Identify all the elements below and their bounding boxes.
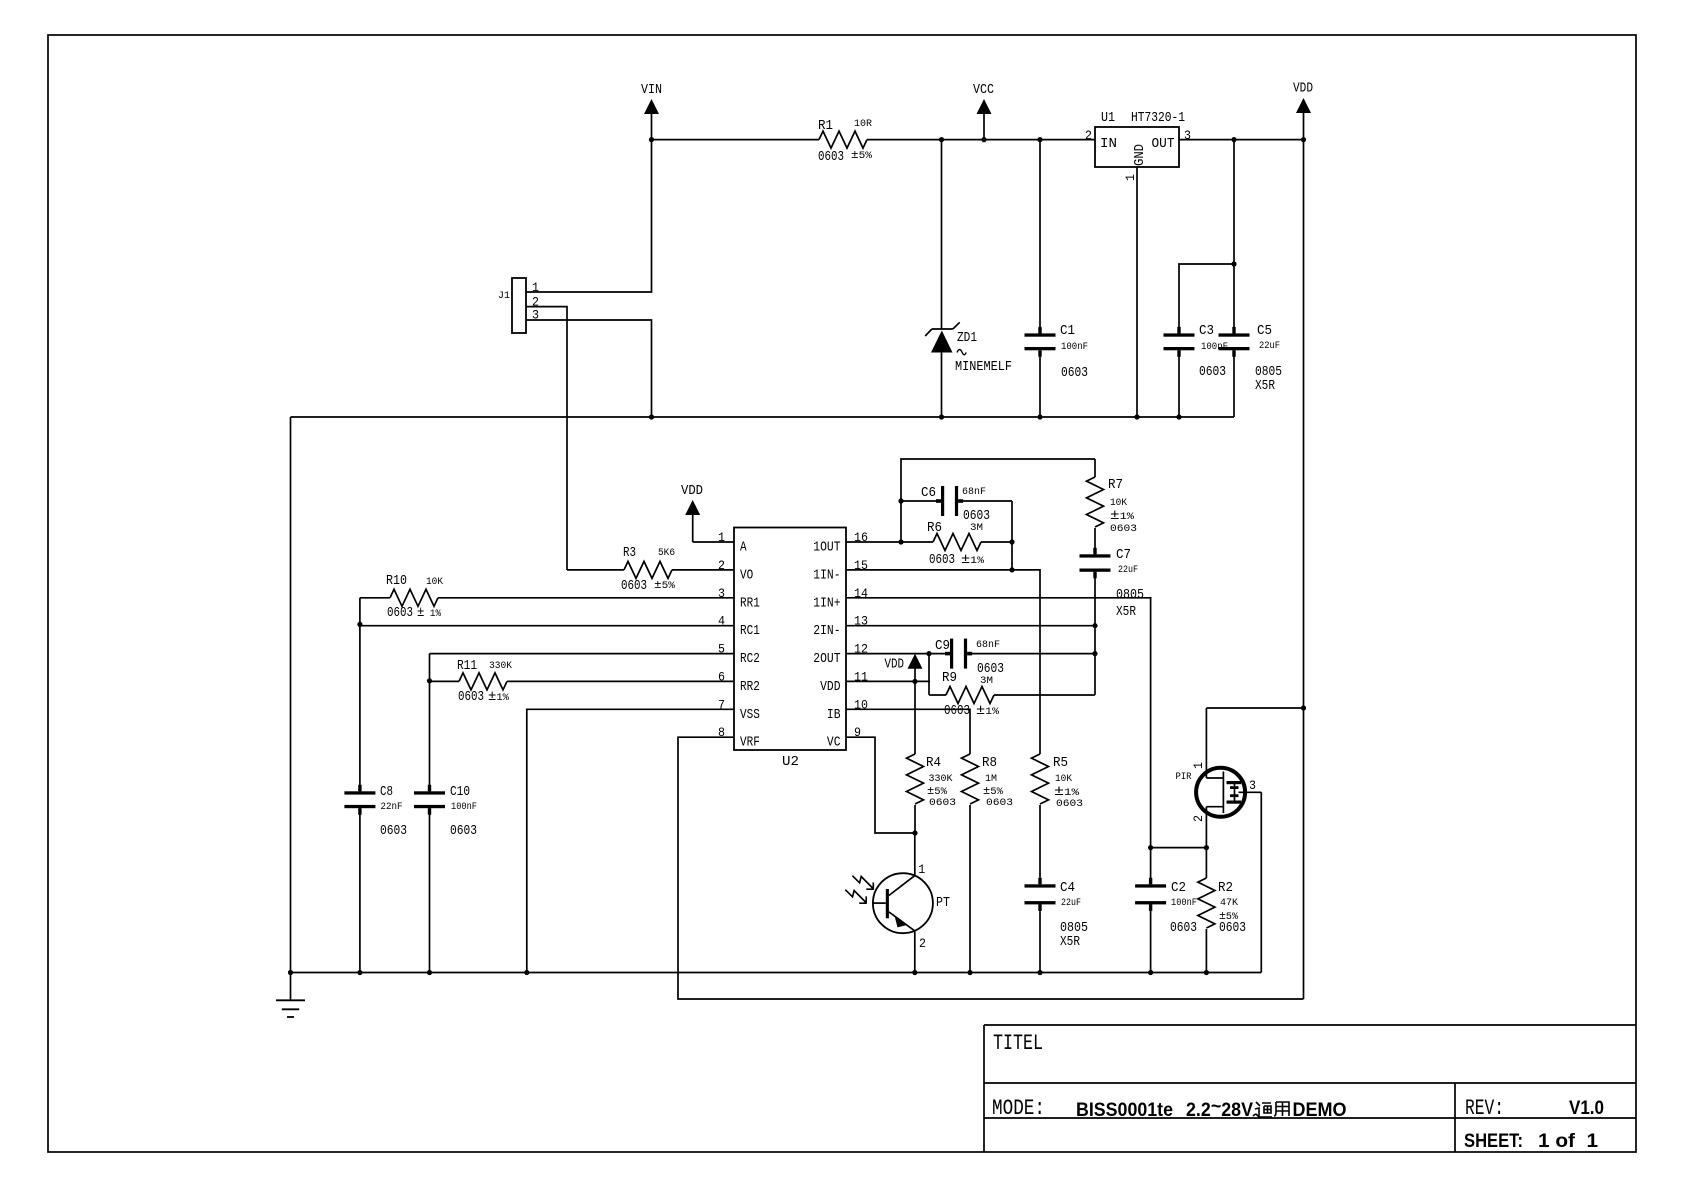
svg-text:GND: GND <box>1133 144 1148 166</box>
svg-text:X5R: X5R <box>1116 605 1136 620</box>
svg-text:VDD: VDD <box>820 680 840 695</box>
svg-text:VDD: VDD <box>1293 82 1313 97</box>
resistor R6 <box>927 521 985 568</box>
svg-text:47K: 47K <box>1220 897 1239 909</box>
svg-text:VRF: VRF <box>740 736 760 751</box>
svg-text:3: 3 <box>1249 778 1256 793</box>
junction U1.GND at rail <box>1134 414 1139 419</box>
svg-text:0603: 0603 <box>1199 365 1226 380</box>
svg-text:±1%: ±1% <box>488 689 510 705</box>
svg-text:DEMO: DEMO <box>1293 1100 1347 1121</box>
junction VDD pin 11 <box>912 679 917 684</box>
resistor R3 <box>567 546 734 594</box>
capacitor C6 <box>901 486 1012 524</box>
junction R2/PIR.2/C2 <box>1204 845 1209 850</box>
svg-text:±1%: ±1% <box>976 703 1000 719</box>
wire PIR.3 to ground rail <box>1260 792 1262 972</box>
IC U2 <box>718 528 868 771</box>
svg-text:22uF: 22uF <box>1259 340 1280 352</box>
svg-text:C10: C10 <box>450 785 470 800</box>
junction VDD node <box>1301 137 1306 142</box>
resistor R4 <box>907 681 957 833</box>
junction C2/PIR link <box>1148 845 1153 850</box>
svg-text:330K: 330K <box>489 660 513 672</box>
svg-text:0603: 0603 <box>1170 921 1197 936</box>
svg-text:2.2~28V: 2.2~28V <box>1186 1097 1253 1122</box>
svg-text:68nF: 68nF <box>962 486 986 498</box>
svg-text:U1: U1 <box>1101 111 1115 126</box>
svg-text:100nF: 100nF <box>1171 897 1197 909</box>
junction VIN node <box>649 137 654 142</box>
wire 1OUT feedback riser <box>901 459 1095 542</box>
svg-text:0603: 0603 <box>818 150 844 165</box>
power flag VCC <box>973 83 994 140</box>
junction C3 at rail <box>1176 414 1181 419</box>
zener diode ZD1 <box>925 322 1012 417</box>
svg-text:C3: C3 <box>1199 324 1214 339</box>
svg-text:C8: C8 <box>380 785 393 800</box>
svg-text:2IN-: 2IN- <box>813 624 840 639</box>
svg-text:VIN: VIN <box>641 83 662 98</box>
wire J1.3 to ground rail <box>526 320 652 417</box>
svg-text:C2: C2 <box>1171 881 1186 896</box>
svg-text:R7: R7 <box>1108 478 1123 493</box>
CJK glyph tong <box>1253 1102 1272 1117</box>
svg-text:2: 2 <box>1191 815 1206 822</box>
svg-text:5K6: 5K6 <box>658 547 675 559</box>
svg-text:0603: 0603 <box>1061 366 1088 381</box>
junction RC1 <box>357 622 362 627</box>
wire J1.2 to R3 <box>526 307 567 570</box>
power flag VDD (top right) <box>1293 82 1313 140</box>
wire U1.GND down <box>1136 167 1138 417</box>
junction J1.3 at rail <box>649 414 654 419</box>
svg-text:C1: C1 <box>1060 324 1075 339</box>
svg-text:0603: 0603 <box>387 606 413 621</box>
svg-text:VDD: VDD <box>885 658 905 673</box>
svg-text:± 1%: ± 1% <box>417 605 442 621</box>
svg-text:±5%: ±5% <box>654 578 676 592</box>
svg-text:J1: J1 <box>498 290 510 302</box>
svg-text:RC1: RC1 <box>740 624 760 639</box>
capacitor C10 <box>414 785 477 973</box>
PIR sensor <box>1176 708 1262 848</box>
junction C1 top <box>1037 137 1042 142</box>
wire J1.1 to VIN <box>526 140 652 292</box>
svg-text:RC2: RC2 <box>740 652 760 667</box>
svg-text:C6: C6 <box>921 486 936 501</box>
svg-text:HT7320-1: HT7320-1 <box>1131 111 1185 126</box>
svg-text:1IN-: 1IN- <box>813 568 840 583</box>
junction rail x=290.5 <box>288 970 293 975</box>
power flag VDD (U2 pin 1) <box>681 484 703 542</box>
junction RR2 <box>427 678 432 683</box>
wire RC2 to U2.5 <box>430 653 735 655</box>
wire 2OUT <box>846 653 950 655</box>
junction rail x=1206.4 <box>1204 970 1209 975</box>
svg-text:A: A <box>740 541 747 556</box>
junction 1IN- <box>1009 567 1014 572</box>
junction ZD1 at rail <box>939 414 944 419</box>
junction rail x=526.8 <box>524 970 529 975</box>
svg-text:VCC: VCC <box>973 83 994 98</box>
svg-text:IB: IB <box>827 708 841 723</box>
capacitor C2 <box>1135 878 1197 973</box>
resistor R7 <box>1087 459 1138 554</box>
wire VC to PT <box>846 737 915 833</box>
svg-text:X5R: X5R <box>1255 379 1275 394</box>
wire RC2/C10 column <box>429 654 431 792</box>
junction C9 right <box>1092 651 1097 656</box>
junction rail x=429.5 <box>427 970 432 975</box>
resistor R5 <box>1032 754 1084 884</box>
svg-text:±5%: ±5% <box>983 784 1004 798</box>
svg-text:R1: R1 <box>818 119 833 134</box>
svg-text:±5%: ±5% <box>851 148 873 162</box>
svg-text:2: 2 <box>919 936 926 951</box>
svg-text:OUT: OUT <box>1152 137 1175 152</box>
svg-text:±1%: ±1% <box>1110 508 1135 524</box>
svg-text:BISS0001te: BISS0001te <box>1076 1100 1173 1121</box>
svg-text:R10: R10 <box>386 574 407 589</box>
capacitor C7 <box>1080 548 1145 695</box>
svg-text:R11: R11 <box>457 659 477 674</box>
junction 2IN-/C7 <box>1092 623 1097 628</box>
svg-text:0603: 0603 <box>1110 523 1137 535</box>
svg-text:22uF: 22uF <box>1118 564 1138 576</box>
svg-text:0805: 0805 <box>1060 921 1088 936</box>
svg-text:1: 1 <box>1191 762 1206 769</box>
svg-text:R9: R9 <box>942 671 957 686</box>
junction C6 left <box>898 498 903 503</box>
svg-text:0805: 0805 <box>1116 588 1144 603</box>
svg-text:0603: 0603 <box>1219 921 1246 936</box>
capacitor C8 <box>344 785 407 973</box>
junction rail x=970 <box>967 970 972 975</box>
svg-text:0603: 0603 <box>986 797 1013 809</box>
CJK glyph yong <box>1274 1102 1289 1116</box>
svg-text:22nF: 22nF <box>381 801 403 813</box>
svg-text:3: 3 <box>1184 128 1191 143</box>
power flag VIN <box>641 83 662 140</box>
capacitor C4 <box>1025 878 1089 973</box>
svg-text:IN: IN <box>1100 137 1117 152</box>
svg-text:1: 1 <box>1123 174 1138 181</box>
wire C6/R6 right vertical <box>1011 501 1013 570</box>
junction rail x=1040 <box>1037 970 1042 975</box>
svg-text:REV:: REV: <box>1465 1096 1504 1121</box>
wire IB to R8 <box>846 709 970 754</box>
svg-text:0603: 0603 <box>944 704 970 719</box>
wire ground rail bottom <box>291 972 1262 974</box>
svg-text:0603: 0603 <box>929 797 956 809</box>
svg-text:R2: R2 <box>1218 881 1233 896</box>
wire 1IN- to R5 column <box>846 570 1040 754</box>
svg-text:0805: 0805 <box>1255 365 1282 380</box>
svg-text:R5: R5 <box>1053 756 1068 771</box>
resistor R8 <box>962 754 1014 973</box>
resistor R9 <box>929 654 1095 719</box>
wire VIN to R1 <box>652 139 820 141</box>
resistor R10 <box>360 574 734 621</box>
junction rail x=359.9 <box>357 970 362 975</box>
title block <box>984 1025 1636 1152</box>
svg-text:RR1: RR1 <box>740 596 760 611</box>
wire ZD1 anode drop <box>941 140 943 329</box>
svg-text:TITEL: TITEL <box>993 1031 1043 1056</box>
wire R10/RC1 column <box>359 598 361 792</box>
wire RC1 to U2.4 <box>360 625 734 627</box>
svg-text:R4: R4 <box>926 756 941 771</box>
wire 2IN- to C7 <box>846 625 1095 627</box>
wire U1.OUT (VDD net) <box>1179 139 1304 141</box>
svg-text:1OUT: 1OUT <box>813 541 840 556</box>
svg-text:68nF: 68nF <box>976 639 1000 651</box>
svg-text:3M: 3M <box>980 675 993 687</box>
junction C3/C5 <box>1231 261 1236 266</box>
junction C5 top <box>1231 137 1236 142</box>
svg-text:0603: 0603 <box>380 824 407 839</box>
svg-text:ZD1: ZD1 <box>957 331 977 346</box>
svg-text:VDD: VDD <box>681 484 703 499</box>
junction C1 at rail <box>1037 414 1042 419</box>
junction VC/R4/PT <box>912 830 917 835</box>
svg-text:PIR: PIR <box>1176 771 1193 783</box>
svg-text:1: 1 <box>918 862 925 877</box>
junction 2OUT <box>926 651 931 656</box>
junction rail x=1150.6 <box>1148 970 1153 975</box>
wire ground rail top <box>291 416 1235 418</box>
power flag VDD (near U2.11) <box>885 654 923 682</box>
svg-text:2OUT: 2OUT <box>813 652 840 667</box>
svg-text:100nF: 100nF <box>451 801 477 813</box>
wire VDD to U2.1 <box>693 541 734 543</box>
wire PIR.1 to VDD <box>1206 707 1303 709</box>
wire R1 to U1.IN (VCC net) <box>867 139 1095 141</box>
light arrow into PT (lower) <box>845 890 866 904</box>
svg-text:10R: 10R <box>854 118 873 130</box>
svg-text:MINEMELF: MINEMELF <box>955 360 1012 375</box>
svg-text:C5: C5 <box>1257 324 1272 339</box>
svg-text:R8: R8 <box>982 756 997 771</box>
svg-text:0603: 0603 <box>450 824 477 839</box>
regulator U1 HT7320-1 <box>1085 111 1191 181</box>
capacitor C1 <box>1025 140 1089 417</box>
svg-text:0603: 0603 <box>1056 798 1083 810</box>
junction PIR.1/VDD <box>1301 705 1306 710</box>
resistor R1 <box>818 118 873 165</box>
svg-text:VC: VC <box>827 736 841 751</box>
capacitor C3 <box>1164 264 1235 417</box>
svg-text:RR2: RR2 <box>740 680 760 695</box>
junction R6 right <box>1009 539 1014 544</box>
svg-text:C9: C9 <box>935 639 950 654</box>
wire VSS to U2.7 <box>527 709 734 972</box>
light arrow into PT (upper) <box>852 876 873 890</box>
svg-text:PT: PT <box>936 896 950 911</box>
wire C2 to PIR.2 <box>1151 847 1207 849</box>
junction rail x=914.8 <box>912 970 917 975</box>
junction 1OUT <box>898 539 903 544</box>
wire VRF down and across (to VDD vertical) <box>678 737 1304 999</box>
svg-text:R6: R6 <box>927 521 942 536</box>
junction ZD1 top <box>939 137 944 142</box>
wire U2.11 VDD pin <box>846 680 930 682</box>
svg-text:C4: C4 <box>1060 881 1075 896</box>
connector J1 <box>498 278 539 333</box>
svg-text:R3: R3 <box>623 546 636 561</box>
svg-text:22uF: 22uF <box>1061 897 1081 909</box>
wire VDD long vertical to VRF net <box>1303 140 1305 999</box>
svg-text:MODE:: MODE: <box>992 1096 1045 1121</box>
junction VCC node <box>981 137 986 142</box>
wire 1IN+ to C2 column <box>846 598 1151 885</box>
svg-text:1 of 1: 1 of 1 <box>1538 1131 1598 1152</box>
svg-text:3M: 3M <box>970 522 983 534</box>
svg-text:0603: 0603 <box>929 553 955 568</box>
resistor R11 <box>430 659 735 705</box>
svg-text:C7: C7 <box>1116 548 1131 563</box>
svg-text:±1%: ±1% <box>961 552 985 568</box>
phototransistor PT <box>873 833 950 973</box>
resistor R2 <box>1198 848 1246 973</box>
svg-text:SHEET:: SHEET: <box>1464 1131 1523 1152</box>
svg-text:1IN+: 1IN+ <box>813 596 840 611</box>
svg-text:0603: 0603 <box>621 579 647 594</box>
svg-text:VSS: VSS <box>740 708 760 723</box>
svg-text:2: 2 <box>1085 128 1092 143</box>
svg-text:U2: U2 <box>782 755 799 770</box>
capacitor C9 <box>935 639 1004 677</box>
svg-text:VO: VO <box>740 568 753 583</box>
svg-text:0603: 0603 <box>458 690 484 705</box>
capacitor C5 <box>1219 140 1283 417</box>
svg-text:100nF: 100nF <box>1061 341 1088 353</box>
svg-text:V1.0: V1.0 <box>1569 1098 1604 1119</box>
svg-text:10K: 10K <box>426 576 444 588</box>
svg-text:±5%: ±5% <box>927 784 948 798</box>
ground symbol <box>276 973 305 1018</box>
wire ground left vertical <box>290 417 292 973</box>
svg-text:X5R: X5R <box>1060 935 1080 950</box>
wire 1OUT / R6 line <box>846 541 933 543</box>
